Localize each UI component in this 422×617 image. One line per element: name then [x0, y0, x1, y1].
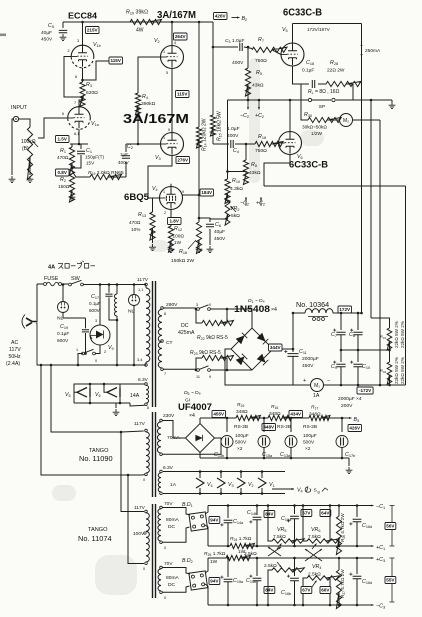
- resistor R32: [380, 350, 392, 385]
- svg-text:4.3kΩ: 4.3kΩ: [230, 186, 243, 192]
- svg-text:455V: 455V: [213, 412, 225, 417]
- svg-text:14A: 14A: [130, 393, 140, 399]
- voltage box 64V a: [320, 510, 331, 517]
- voltage box 172V: [338, 306, 363, 314]
- label R32 value: [394, 357, 405, 384]
- svg-text:INPUT: INPUT: [11, 105, 28, 111]
- svg-text:400V: 400V: [227, 133, 239, 139]
- svg-text:15V: 15V: [86, 161, 95, 166]
- svg-text:7.5kΩ: 7.5kΩ: [273, 534, 286, 540]
- svg-text:4W: 4W: [136, 28, 144, 34]
- svg-text:−C3: −C3: [376, 604, 385, 610]
- wire bridge left return: [225, 349, 293, 385]
- svg-text:448V: 448V: [263, 425, 275, 430]
- wire railB to R31: [371, 318, 390, 328]
- heater rail bottom: [163, 493, 285, 495]
- svg-text:5: 5: [168, 128, 170, 132]
- svg-text:450V: 450V: [41, 37, 53, 43]
- wire V1b cathode link: [81, 61, 109, 81]
- label 172V/197V: [307, 27, 331, 32]
- svg-text:22kΩ 5W 2%: 22kΩ 5W 2%: [394, 357, 399, 384]
- svg-text:1: 1: [163, 136, 165, 140]
- voltage box 1.5V: [56, 136, 70, 143]
- transformer T3 core: [153, 504, 156, 598]
- svg-text:184V: 184V: [201, 190, 213, 195]
- label BD2: [182, 558, 193, 564]
- switch sec bottom: [163, 366, 227, 379]
- svg-text:215V: 215V: [87, 28, 99, 33]
- label SW: [71, 276, 81, 282]
- wire V3 cathode: [148, 156, 172, 199]
- bias return: [200, 457, 352, 474]
- svg-text:80mA: 80mA: [166, 575, 180, 581]
- svg-text:C3 1.0µF: C3 1.0µF: [225, 38, 244, 44]
- wire R3 to V1a: [74, 96, 84, 107]
- label 100uF x2 a: [235, 433, 249, 452]
- svg-text:426V: 426V: [349, 426, 361, 431]
- neon NL1: [57, 283, 69, 321]
- bridge D1-D4: [231, 328, 273, 370]
- svg-text:470Ω: 470Ω: [57, 155, 69, 160]
- ground R13: [149, 228, 156, 251]
- wire V4 anode: [183, 193, 201, 196]
- voltage box 115V: [109, 57, 123, 64]
- svg-text:M₁: M₁: [314, 383, 320, 389]
- wire R4 down: [126, 106, 161, 146]
- cap C16b: [281, 557, 299, 607]
- resistor R15: [210, 46, 222, 141]
- cap C15b: [280, 417, 297, 459]
- resistor R28: [326, 60, 361, 87]
- svg-text:434V: 434V: [290, 412, 302, 417]
- label INPUT: [11, 105, 28, 111]
- svg-text:8: 8: [147, 406, 149, 410]
- wire to bridge bottom: [227, 369, 252, 371]
- label 3A/167M mid: [123, 112, 189, 126]
- svg-text:DC: DC: [168, 582, 176, 588]
- svg-text:600V: 600V: [57, 338, 69, 344]
- svg-text:115V: 115V: [110, 58, 121, 63]
- transformer T3 primary: [133, 505, 149, 571]
- wire V4 screen etc: [198, 195, 200, 222]
- cap C15a2: [220, 557, 244, 607]
- cap column C8 C10: [349, 312, 370, 385]
- svg-text:172V: 172V: [339, 307, 351, 312]
- tube V1a: [68, 104, 100, 136]
- neon NL2: [77, 283, 140, 366]
- svg-text:80mA: 80mA: [166, 517, 180, 523]
- voltage box 344V: [269, 344, 283, 351]
- cap C15a: [258, 417, 273, 459]
- heater net wires: [74, 383, 145, 416]
- svg-text:6.3V: 6.3V: [138, 377, 149, 383]
- transformer T1 secondary: [158, 302, 178, 376]
- resistor R30: [301, 100, 341, 136]
- svg-text:-172V: -172V: [359, 388, 372, 393]
- wire V2 anode: [171, 21, 176, 45]
- svg-text:5kΩ: 5kΩ: [231, 213, 240, 219]
- svg-text:43kΩ: 43kΩ: [249, 170, 261, 176]
- cap C17b: [336, 417, 355, 459]
- svg-text:FUSE: FUSE: [44, 276, 59, 282]
- resistor R4: [135, 93, 155, 115]
- rail A 250mA: [360, 24, 381, 314]
- svg-text:RS-2B: RS-2B: [277, 424, 291, 430]
- rail B: [370, 100, 372, 318]
- svg-text:390kΩ: 390kΩ: [141, 101, 156, 107]
- svg-text:1.0µF: 1.0µF: [227, 126, 240, 132]
- svg-text:1,1: 1,1: [138, 287, 143, 292]
- voltage box -172V: [357, 387, 373, 394]
- ground R12: [168, 241, 175, 253]
- net +C1: [366, 545, 385, 551]
- svg-text:No. 11074: No. 11074: [78, 534, 112, 543]
- svg-text:UF4007: UF4007: [178, 402, 212, 412]
- wire V2 cathode: [166, 69, 172, 134]
- mid wire: [340, 349, 391, 352]
- ground pot: [27, 157, 34, 183]
- svg-text:6C33C-B: 6C33C-B: [289, 160, 328, 171]
- cap C14b2: [246, 557, 261, 607]
- resistor R22 loop: [195, 308, 234, 342]
- cap C17 and relay coil: [89, 283, 118, 365]
- svg-text:7: 7: [74, 101, 76, 105]
- svg-text:84V: 84V: [265, 512, 274, 517]
- label BD1: [182, 502, 193, 508]
- bias rail: [200, 417, 344, 419]
- svg-text:2: 2: [104, 350, 106, 354]
- svg-text:200V: 200V: [341, 403, 353, 409]
- label ECC84: [68, 12, 98, 21]
- label DC 425mA: [178, 323, 195, 336]
- transformer T2 primary: [121, 421, 149, 482]
- svg-text:100V: 100V: [133, 531, 145, 537]
- heater V6: [107, 388, 120, 398]
- label 2000uFx4: [338, 396, 362, 409]
- svg-text:344V: 344V: [270, 345, 282, 350]
- tube V4: [160, 184, 185, 210]
- supply1 top rail: [208, 505, 373, 507]
- label V6: [297, 154, 303, 160]
- resistor R13: [129, 198, 160, 240]
- resistor R16: [171, 222, 202, 264]
- voltage box 426V b: [348, 425, 362, 432]
- svg-text:348Ω: 348Ω: [269, 411, 281, 417]
- resistor R10: [126, 10, 162, 34]
- resistor R31: [380, 328, 392, 350]
- svg-text:3: 3: [77, 39, 79, 43]
- label V2: [154, 38, 160, 44]
- svg-text:8,1: 8,1: [74, 132, 79, 136]
- resistor R1: [57, 144, 75, 175]
- wire VR2 to C6 node: [210, 218, 211, 219]
- svg-text:56V: 56V: [386, 524, 395, 529]
- transformer T2 sec 230V: [157, 413, 180, 456]
- voltage box 184V: [200, 189, 214, 196]
- voltage box 84V b: [264, 587, 275, 594]
- potentiometer 100k: [21, 127, 38, 180]
- svg-text:3A/167M: 3A/167M: [157, 10, 196, 21]
- svg-text:276V: 276V: [177, 158, 189, 163]
- svg-text:×2: ×2: [305, 446, 311, 452]
- svg-text:3,4: 3,4: [137, 357, 143, 362]
- net -C3: [366, 604, 385, 610]
- wire AC to fuse: [36, 284, 37, 322]
- svg-text:1N5408: 1N5408: [234, 304, 270, 314]
- wire 117 to T3: [120, 431, 144, 512]
- svg-text:6: 6: [62, 112, 64, 116]
- svg-text:3: 3: [196, 303, 198, 307]
- svg-text:DC: DC: [181, 323, 189, 329]
- svg-text:2.5kΩ: 2.5kΩ: [264, 563, 277, 569]
- voltage box 0.8V: [56, 169, 70, 176]
- svg-text:S: S: [314, 488, 317, 494]
- resistor R18: [255, 134, 283, 154]
- bridge D5-D8: [162, 418, 221, 458]
- svg-text:ECC84: ECC84: [68, 12, 98, 21]
- pot VR4b: [302, 564, 340, 606]
- svg-text:67V: 67V: [302, 511, 311, 516]
- heater V3 arrow: [217, 470, 234, 495]
- svg-text:117V: 117V: [9, 347, 21, 353]
- label TANGO 11090: [79, 448, 113, 463]
- svg-text:500V: 500V: [303, 440, 315, 446]
- svg-text:348Ω: 348Ω: [236, 409, 248, 415]
- voltage box 67V a: [301, 510, 312, 517]
- svg-text:2.5kΩ: 2.5kΩ: [244, 551, 257, 557]
- svg-text:R25 1.7kΩ: R25 1.7kΩ: [204, 551, 226, 557]
- tube V3: [161, 128, 184, 156]
- svg-text:1A: 1A: [170, 482, 177, 488]
- svg-text:290V: 290V: [166, 302, 178, 308]
- label 117V main: [137, 277, 149, 283]
- wire VR2 down: [211, 214, 228, 219]
- svg-text:55V: 55V: [386, 578, 395, 583]
- svg-text:AC: AC: [11, 340, 18, 346]
- capacitor C2: [118, 144, 133, 177]
- wire NL1 down: [63, 313, 86, 319]
- wire to bridge top: [227, 309, 252, 328]
- label V5 heater: [65, 392, 71, 398]
- voltage box 276V: [176, 157, 190, 164]
- resistor R14: [196, 118, 207, 151]
- triac V9: [90, 283, 114, 354]
- supply2 top rail: [208, 557, 373, 559]
- pot VR2: [225, 193, 240, 225]
- label slow-blow katakana: [58, 261, 95, 269]
- svg-text:1.8V: 1.8V: [169, 219, 179, 224]
- transformer T1 core: [153, 281, 156, 407]
- svg-text:R10 39kΩ: R10 39kΩ: [126, 10, 148, 16]
- wire V2 grid: [138, 57, 161, 93]
- wire B2 arrow: [232, 16, 248, 22]
- svg-text:94V: 94V: [210, 579, 219, 584]
- svg-text:450V: 450V: [214, 236, 226, 242]
- crossing wipers: [268, 547, 322, 561]
- label D5-D8: [184, 390, 201, 396]
- svg-text:172V/197V: 172V/197V: [307, 27, 331, 32]
- ground input: [9, 119, 16, 183]
- wire R14 down: [198, 139, 200, 193]
- wire bridge out right: [273, 348, 294, 351]
- svg-text:50Hz: 50Hz: [9, 354, 22, 360]
- svg-text:150kΩ 2W: 150kΩ 2W: [171, 258, 194, 264]
- svg-text:500V: 500V: [235, 440, 247, 446]
- voltage box 115V b: [176, 91, 190, 98]
- wire R14 column: [198, 21, 201, 127]
- svg-text:No. 11090: No. 11090: [79, 454, 113, 463]
- resistor R26: [336, 504, 346, 554]
- bridge module BD1: [162, 508, 207, 532]
- svg-text:750Ω: 750Ω: [255, 58, 267, 64]
- label V3: [155, 155, 161, 161]
- net +C2 stub top: [255, 99, 264, 120]
- voltage box 455V: [212, 411, 226, 418]
- svg-text:100µF: 100µF: [303, 433, 317, 439]
- node R1 top: [70, 143, 88, 146]
- svg-text:RS-2B: RS-2B: [303, 424, 317, 430]
- resistor R3: [80, 82, 98, 106]
- svg-text:8: 8: [75, 75, 77, 79]
- svg-text:2000µF ×4: 2000µF ×4: [338, 396, 362, 402]
- rail D: [405, 186, 407, 385]
- svg-text:No. 10364: No. 10364: [296, 300, 329, 309]
- label 6C33C-B top: [283, 8, 322, 19]
- svg-text:40µF: 40µF: [214, 229, 225, 235]
- voltage box 67V b: [301, 587, 312, 594]
- label RL: [308, 89, 340, 95]
- svg-text:6C33C-B: 6C33C-B: [283, 8, 322, 19]
- svg-text:264V: 264V: [175, 34, 187, 39]
- transformer T3 sec2: [158, 561, 180, 600]
- fuse: [37, 282, 62, 286]
- resistor R7: [244, 37, 287, 64]
- transformer T2 sec 6.3V: [158, 465, 176, 495]
- label AC: [6, 340, 21, 367]
- voltage box 84V a: [264, 511, 275, 518]
- svg-text:6.3V: 6.3V: [163, 465, 174, 471]
- label 14A: [130, 393, 140, 399]
- label RS-2B 3: [303, 424, 317, 430]
- ground C5: [60, 34, 67, 41]
- capacitor C5: [41, 22, 67, 43]
- label V4 Sg: [272, 486, 328, 494]
- svg-text:100Ω: 100Ω: [173, 234, 185, 239]
- svg-text:3A/167M: 3A/167M: [123, 112, 189, 126]
- meter M1: [303, 378, 330, 399]
- voltage box 448V: [262, 424, 276, 431]
- net +C3: [366, 557, 385, 563]
- svg-text:100µF: 100µF: [235, 433, 249, 439]
- speaker line: [228, 98, 393, 179]
- label 100uF x2 b: [303, 433, 317, 452]
- svg-text:400V: 400V: [232, 60, 244, 66]
- svg-text:600V: 600V: [89, 308, 101, 313]
- svg-text:117V: 117V: [137, 277, 149, 283]
- label 6BQ5: [124, 192, 150, 203]
- svg-text:+: +: [303, 378, 306, 384]
- svg-text:0.1µF: 0.1µF: [57, 331, 69, 337]
- svg-text:−: −: [327, 378, 330, 384]
- svg-text:22kΩ 5W 2%: 22kΩ 5W 2%: [400, 357, 405, 384]
- svg-text:70V: 70V: [164, 501, 173, 507]
- svg-text:(B): (B): [22, 146, 29, 152]
- cap C16d: [349, 504, 372, 547]
- svg-text:0.1µF: 0.1µF: [89, 301, 101, 306]
- resistor R24: [230, 536, 254, 555]
- net -C2 stub top: [240, 99, 249, 120]
- svg-text:9: 9: [182, 190, 184, 194]
- svg-text:250mA: 250mA: [365, 48, 381, 54]
- svg-text:425mA: 425mA: [178, 330, 195, 336]
- cap C13b: [214, 417, 233, 459]
- svg-text:0: 0: [164, 546, 166, 550]
- svg-text:117V: 117V: [134, 505, 146, 511]
- svg-text:620Ω: 620Ω: [86, 90, 98, 96]
- svg-text:0: 0: [143, 567, 145, 571]
- label TANGO 11074: [78, 527, 112, 543]
- voltage box 1.8V: [168, 218, 182, 225]
- resistor R23 loop: [190, 350, 234, 371]
- wire R15 down: [212, 127, 214, 144]
- wires BD2: [162, 558, 208, 605]
- svg-text:11: 11: [196, 375, 200, 379]
- svg-text:1: 1: [163, 50, 165, 54]
- capacitor C1: [77, 144, 104, 166]
- transformer T2 core: [153, 412, 156, 497]
- svg-text:DC: DC: [168, 524, 176, 530]
- heater rail top: [162, 471, 285, 473]
- label V4: [152, 186, 158, 192]
- choke 10364: [292, 300, 362, 321]
- wire V4 cathode: [164, 210, 171, 218]
- svg-text:1W: 1W: [210, 559, 218, 565]
- capacitor C18: [302, 60, 315, 88]
- switch SW: [62, 280, 147, 286]
- net -C2 stub mid: [240, 197, 249, 207]
- svg-text:1: 1: [76, 348, 78, 352]
- wire V5 anode: [293, 24, 362, 44]
- svg-text:10%: 10%: [131, 227, 140, 232]
- ground R16: [196, 240, 203, 253]
- ground speaker: [389, 100, 396, 109]
- svg-text:RL = 8Ω , 16Ω: RL = 8Ω , 16Ω: [308, 89, 340, 95]
- label R31 value: [394, 321, 405, 348]
- rail C: [379, 120, 381, 385]
- svg-text:4A: 4A: [48, 265, 55, 271]
- svg-text:400V: 400V: [118, 160, 130, 165]
- svg-text:×2: ×2: [237, 446, 243, 452]
- svg-text:+C1: +C1: [376, 545, 385, 551]
- wire B+ rail: [63, 22, 213, 47]
- resistor R25: [204, 551, 257, 565]
- tube V1b: [68, 21, 101, 79]
- svg-text:1µF: 1µF: [120, 152, 128, 157]
- net -C1: [366, 504, 385, 510]
- svg-text:450V: 450V: [302, 363, 314, 369]
- svg-text:1/2W: 1/2W: [311, 131, 323, 136]
- svg-text:40µF: 40µF: [41, 30, 52, 36]
- cap column C7 C9: [331, 312, 346, 385]
- svg-text:1: 1: [163, 190, 165, 194]
- svg-text:348Ω: 348Ω: [309, 412, 321, 418]
- svg-text:67V: 67V: [302, 588, 311, 593]
- wire left rail 117: [50, 364, 121, 432]
- cap C14b: [247, 504, 261, 547]
- svg-text:70V: 70V: [164, 561, 173, 567]
- ground R2: [69, 190, 76, 201]
- wire AC bottom: [36, 323, 146, 365]
